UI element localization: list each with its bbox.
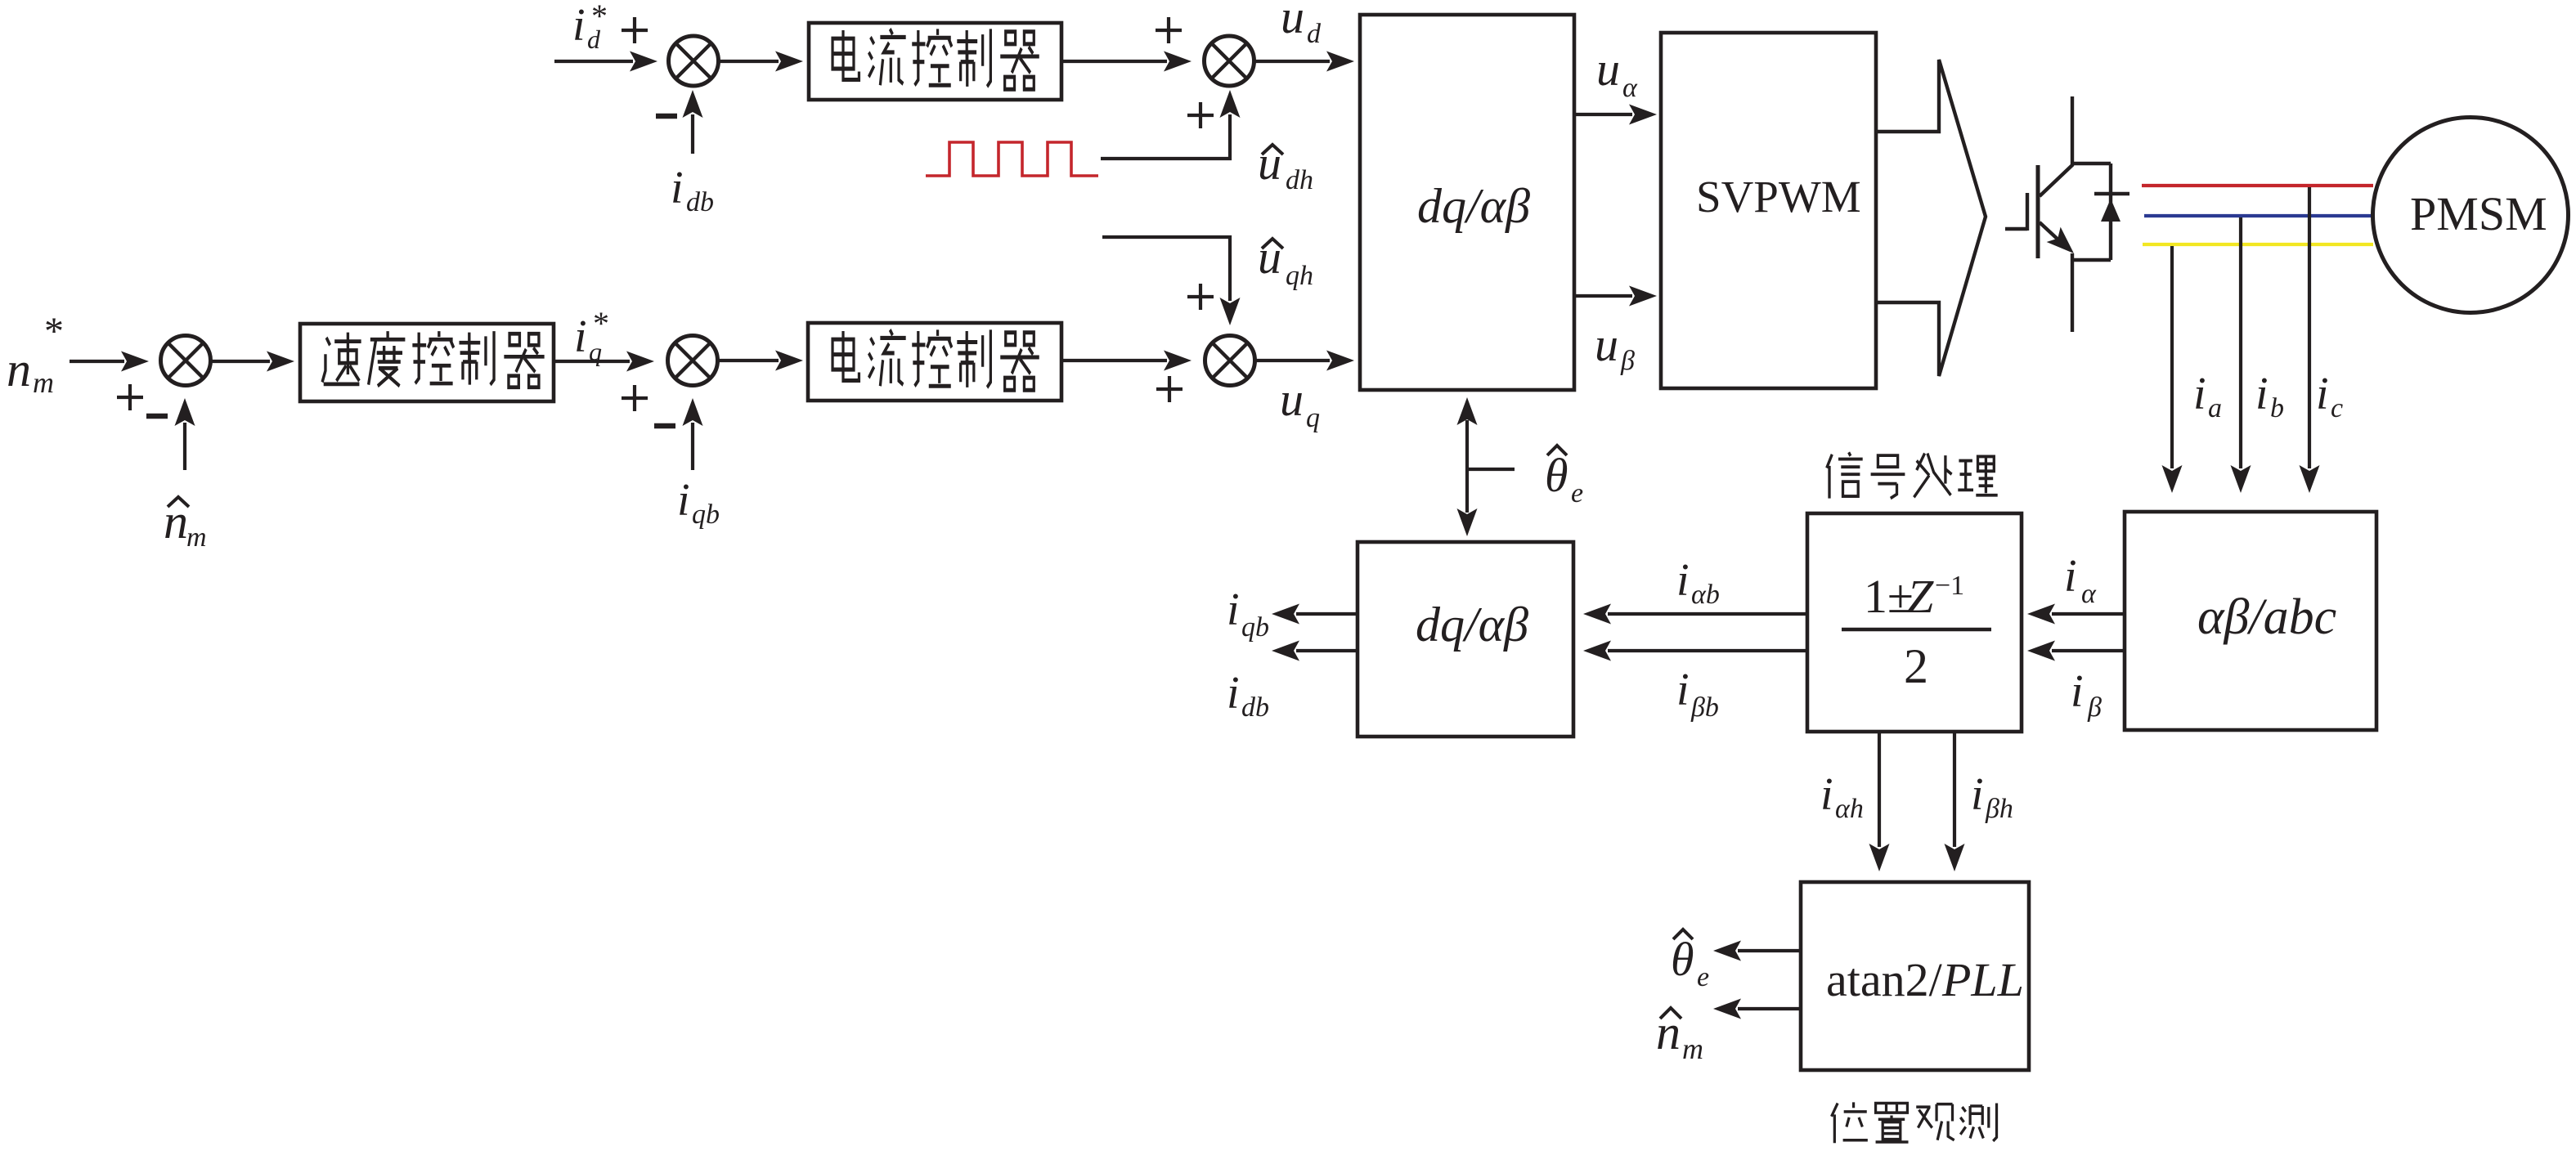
wire i_qb feedback up into S4a xyxy=(691,423,694,470)
plus sign at summing junction S1 xyxy=(622,17,648,43)
svg-text:i: i xyxy=(677,475,690,526)
svg-text:PMSM: PMSM xyxy=(2410,187,2547,240)
svg-text:−1: −1 xyxy=(1935,571,1964,601)
svg-text:u: u xyxy=(1258,137,1281,190)
wire u_dh injection into S2 xyxy=(1101,114,1230,159)
block alpha-beta/abc transform xyxy=(2125,512,2376,730)
svg-text:1±: 1± xyxy=(1864,570,1914,623)
wire i_d* input xyxy=(554,60,633,63)
transistor IGBT gate bar xyxy=(2026,193,2029,231)
transistor IGBT gate lead xyxy=(2005,227,2027,231)
wire i_db output arrow xyxy=(1296,649,1358,652)
plus sign above S4 xyxy=(1187,284,1214,310)
svg-text:qh: qh xyxy=(1286,261,1313,291)
svg-text:β: β xyxy=(2087,692,2102,723)
svg-text:αb: αb xyxy=(1691,580,1720,610)
wire i_qb output arrow xyxy=(1296,612,1358,616)
svg-text:dh: dh xyxy=(1286,165,1313,195)
plus sign left of S2 xyxy=(1156,17,1182,43)
summing junction S4a (current error q) xyxy=(668,336,718,386)
wire theta_e double arrow between dq blocks xyxy=(1465,420,1469,513)
node n_m hat label xyxy=(168,497,189,507)
wire n_m* input xyxy=(70,360,124,363)
svg-text:i: i xyxy=(2071,666,2084,717)
svg-text:i: i xyxy=(2316,369,2329,419)
svg-text:qb: qb xyxy=(692,499,720,530)
svg-text:2: 2 xyxy=(1904,639,1928,693)
plus sign left of S4 xyxy=(1156,376,1183,402)
wire i_b sense line xyxy=(2239,217,2242,468)
svg-text:qb: qb xyxy=(1241,612,1269,643)
wire S4a to current controller 2 xyxy=(717,359,779,362)
wire big chevron arrow from SVPWM to inverter xyxy=(1876,60,1986,376)
svg-text:dq/αβ: dq/αβ xyxy=(1416,598,1528,652)
node u_dh label with hat xyxy=(1262,145,1283,155)
svg-text:βh: βh xyxy=(1985,794,2013,824)
wire phase b (blue) xyxy=(2144,214,2374,217)
wire S3 to speed controller xyxy=(210,360,270,363)
svg-text:i: i xyxy=(1820,769,1833,820)
motor PMSM circle xyxy=(2373,118,2569,313)
svg-text:θ: θ xyxy=(1671,933,1694,986)
wire n_m output arrow xyxy=(1738,1007,1801,1010)
wire i_bb arrow signal box to dq bottom xyxy=(1608,649,1807,652)
svg-text:*: * xyxy=(591,0,608,34)
minus sign below S1 xyxy=(656,115,677,117)
block atan2/PLL position observer xyxy=(1801,882,2029,1070)
diode freewheeling xyxy=(2109,163,2112,260)
svg-text:β: β xyxy=(1620,346,1635,376)
svg-text:i: i xyxy=(2255,369,2269,419)
block SVPWM xyxy=(1661,33,1876,388)
wire phase c (yellow) xyxy=(2143,243,2373,246)
svg-text:i: i xyxy=(1971,769,1984,820)
svg-text:u: u xyxy=(1280,373,1304,426)
wire u_qh injection line down to S4 xyxy=(1102,237,1230,301)
wire i_ab arrow signal box to dq bottom xyxy=(1608,612,1807,616)
svg-text:αh: αh xyxy=(1835,794,1864,824)
summing junction S1 xyxy=(669,36,719,86)
node n_m hat output label xyxy=(1660,1008,1681,1019)
svg-text:i: i xyxy=(1676,665,1690,715)
wire i_ah down to atan2 xyxy=(1878,733,1881,847)
svg-text:a: a xyxy=(2208,393,2222,423)
wire phase a (red) xyxy=(2142,184,2373,187)
label signal processing (xin hao chu li) xyxy=(1827,452,1863,498)
svg-text:db: db xyxy=(1241,692,1269,723)
svg-text:u: u xyxy=(1595,318,1618,371)
svg-text:i: i xyxy=(1676,555,1690,606)
plus sign at summing junction S4a xyxy=(622,385,648,411)
svg-text:m: m xyxy=(1682,1032,1703,1065)
svg-text:*: * xyxy=(593,305,609,342)
wire current controller 2 to S4 xyxy=(1061,359,1167,362)
svg-text:θ: θ xyxy=(1545,449,1568,502)
minus sign below S3 xyxy=(146,415,168,417)
wire i_a sense line xyxy=(2170,246,2174,468)
svg-text:i: i xyxy=(574,311,587,362)
transistor IGBT body bar xyxy=(2036,165,2040,258)
wire current controller 1 to summing junction S2 xyxy=(1061,60,1167,63)
wire i_db feedback up into S1 xyxy=(691,114,694,154)
node theta_e hat output label xyxy=(1673,929,1693,939)
svg-text:b: b xyxy=(2270,393,2284,423)
transistor IGBT emitter with arrow xyxy=(2040,222,2062,244)
svg-text:m: m xyxy=(33,366,54,399)
svg-text:atan2/: atan2/ xyxy=(1826,953,1943,1006)
wire S2 to dq/ab block xyxy=(1253,60,1330,63)
block current controller 2 (dian liu kong zhi qi) xyxy=(808,323,1061,401)
svg-text:e: e xyxy=(1571,478,1583,508)
svg-text:i: i xyxy=(1227,584,1240,635)
svg-text:αβ/abc: αβ/abc xyxy=(2197,589,2336,645)
label position observer (wei zhi guan ce) xyxy=(1832,1102,1868,1143)
summing junction S2 (u_d) xyxy=(1205,36,1254,86)
wire i_bh down to atan2 xyxy=(1953,733,1956,847)
wire theta_e output arrow xyxy=(1738,949,1801,952)
svg-text:n: n xyxy=(7,343,31,396)
svg-text:i: i xyxy=(2193,369,2206,419)
plus sign at summing junction S3 xyxy=(117,384,143,410)
svg-text:db: db xyxy=(686,187,714,217)
svg-text:u: u xyxy=(1281,0,1304,43)
svg-text:d: d xyxy=(1307,19,1322,49)
wire i_alpha arrow abc box to signal box xyxy=(2052,612,2125,616)
svg-text:i: i xyxy=(572,0,586,51)
square wave injection source (red) xyxy=(926,142,1098,176)
plus sign below S2 xyxy=(1187,102,1214,128)
wire n_m feedback up into S3 xyxy=(183,423,186,470)
block dq/alpha-beta transform (top) xyxy=(1360,15,1574,390)
svg-text:c: c xyxy=(2331,393,2343,423)
svg-text:m: m xyxy=(186,522,207,553)
block current controller 1 (dian liu kong zhi qi) xyxy=(809,23,1061,100)
svg-text:i: i xyxy=(2064,551,2077,602)
svg-text:q: q xyxy=(1306,403,1320,433)
wire i_beta arrow abc box to signal box xyxy=(2052,649,2125,652)
svg-text:i: i xyxy=(671,163,684,213)
svg-text:βb: βb xyxy=(1690,692,1719,723)
transistor IGBT collector lead xyxy=(2040,96,2072,196)
svg-text:α: α xyxy=(1622,73,1638,103)
svg-text:SVPWM: SVPWM xyxy=(1696,172,1861,222)
svg-text:*: * xyxy=(44,310,64,353)
block speed controller (su du kong zhi qi) xyxy=(300,324,554,401)
wire speed controller to S4a xyxy=(554,360,630,363)
summing junction S4 (u_q) xyxy=(1205,336,1255,386)
wire S1 to current controller 1 xyxy=(717,60,779,63)
svg-text:e: e xyxy=(1697,962,1709,992)
block signal processing (1+-Z^-1)/2 xyxy=(1807,513,2022,732)
summing junction S3 (speed error) xyxy=(161,336,211,386)
wire i_c sense line xyxy=(2308,187,2311,468)
wire u_alpha to SVPWM xyxy=(1574,113,1632,116)
node theta_e hat label xyxy=(1547,446,1567,455)
svg-text:PLL: PLL xyxy=(1941,953,2024,1006)
svg-text:u: u xyxy=(1258,231,1281,284)
wire S4 to dq/ab block xyxy=(1254,359,1330,362)
node u_qh label with hat xyxy=(1262,239,1283,249)
wire IGBT to diode connectors xyxy=(2072,163,2111,260)
svg-text:u: u xyxy=(1596,43,1620,96)
block dq/alpha-beta transform (bottom) xyxy=(1358,542,1573,737)
svg-text:α: α xyxy=(2081,579,2097,609)
svg-text:dq/αβ: dq/αβ xyxy=(1417,179,1530,233)
wire u_beta to SVPWM xyxy=(1574,294,1632,298)
svg-text:Z: Z xyxy=(1907,570,1934,623)
svg-text:n: n xyxy=(1656,1005,1681,1059)
svg-text:n: n xyxy=(164,495,188,549)
svg-text:i: i xyxy=(1227,668,1240,719)
minus sign below S4a xyxy=(654,425,675,427)
